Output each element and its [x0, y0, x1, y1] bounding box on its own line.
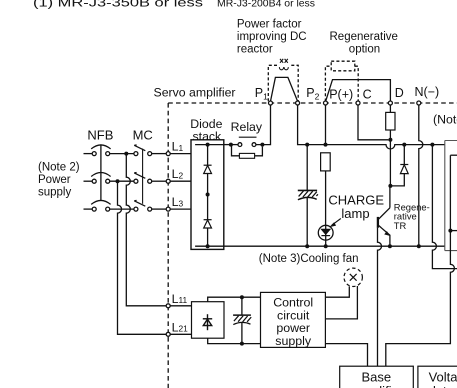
- svg-text:Servo amplifier: Servo amplifier: [154, 85, 236, 99]
- diode stack internal bus top: [195, 144, 224, 146]
- wire P bus to voltage detection drop: [432, 145, 457, 269]
- terminal C: [356, 101, 360, 105]
- junction N bus emitter: [388, 244, 392, 248]
- servo amplifier boundary dashed line left: [167, 103, 169, 388]
- breaker NFB link bar: [100, 144, 102, 200]
- inverter box partial: [445, 141, 457, 251]
- label Power factor improving DC reactor: [237, 18, 307, 55]
- regenerative option resistor dashed rect: [331, 61, 355, 71]
- label Control circuit power supply: [273, 296, 313, 348]
- junction relay left: [229, 143, 233, 147]
- wire branch L21 vertical with hop: [118, 181, 167, 334]
- wire MC to L2: [152, 180, 167, 182]
- svg-text:Relay: Relay: [231, 120, 263, 134]
- junction row1 branch: [124, 152, 128, 156]
- wire NFB to MC row1: [110, 153, 134, 155]
- wire control DC bus top: [208, 297, 261, 302]
- junction relay right: [260, 143, 264, 147]
- control capacitor top wire: [241, 297, 243, 315]
- regen resistor (D-C): [386, 112, 395, 130]
- svg-text:supply: supply: [275, 334, 312, 348]
- diode stack D2: [204, 220, 212, 228]
- wire P(+) drop: [325, 105, 327, 145]
- inrush resistor: [239, 153, 254, 158]
- svg-text:L1: L1: [172, 140, 184, 154]
- junction row2 branch: [116, 179, 120, 183]
- wire L21 terminal row: [170, 333, 191, 335]
- wire L3 to diode stack: [170, 208, 191, 210]
- svg-text:(1) MR-J3-350B or less: (1) MR-J3-350B or less: [33, 0, 203, 9]
- junction P bus P(+) tap: [324, 143, 328, 147]
- charge lamp resistor: [321, 153, 331, 171]
- breaker NFB pole3: [91, 200, 110, 211]
- svg-text:CHARGE: CHARGE: [328, 192, 384, 207]
- svg-text:Base: Base: [362, 370, 392, 385]
- wire C drop to regen node: [358, 105, 388, 140]
- main smoothing capacitor branch top wire: [306, 145, 308, 191]
- junction collector node: [388, 184, 392, 188]
- control circuit power supply box: [261, 292, 326, 347]
- wire inverter internal P stub: [450, 154, 457, 156]
- label (Note 2) Power supply: [38, 161, 80, 198]
- terminal L3: [166, 207, 170, 211]
- terminal L11: [166, 304, 170, 308]
- svg-text:detection: detection: [429, 384, 457, 388]
- svg-text:TR: TR: [394, 220, 407, 231]
- svg-text:MR-J3-200B4 or less: MR-J3-200B4 or less: [217, 0, 315, 9]
- svg-text:N(−): N(−): [415, 85, 440, 99]
- wire P2 riser and P bus: [298, 105, 445, 149]
- svg-text:Power: Power: [38, 174, 71, 186]
- contactor MC link bar: [142, 149, 144, 204]
- DC reactor coil symbol: [279, 59, 288, 70]
- label Regenerative option: [330, 31, 398, 55]
- main smoothing capacitor bottom wire: [306, 198, 308, 247]
- terminal P2: [296, 101, 300, 105]
- cooling fan motor: [344, 268, 362, 286]
- terminal D: [388, 101, 392, 105]
- svg-text:(Note 2): (Note 2): [38, 161, 80, 173]
- diode stack internal bus bottom: [195, 245, 224, 247]
- regenerative option dashed box: [325, 66, 358, 101]
- control capacitor bottom wire: [241, 322, 243, 343]
- svg-text:Regenerative: Regenerative: [330, 31, 398, 43]
- junction N bus N(-): [417, 244, 421, 248]
- converter diode stack box: [191, 140, 224, 250]
- terminal N(-): [417, 101, 421, 105]
- inrush resistor branch wire left: [232, 145, 240, 156]
- svg-text:L11: L11: [172, 292, 188, 306]
- junction diode stack mid: [206, 193, 210, 197]
- junction diode stack bottom: [206, 244, 210, 248]
- wire supply stub row2: [84, 180, 93, 182]
- wire D drop: [389, 105, 391, 112]
- arrow lamp pointer: [329, 219, 341, 228]
- junction regen node: [388, 138, 392, 142]
- control filter capacitor: [233, 315, 251, 325]
- regen freewheel diode branch: [390, 145, 404, 186]
- junction control cap top: [240, 295, 244, 299]
- junction control cap bottom: [240, 342, 244, 346]
- wire supply stub row3: [84, 208, 93, 210]
- diode stack D1: [204, 165, 212, 173]
- junction diode stack top: [206, 143, 210, 147]
- wire L2 to diode stack: [170, 180, 191, 182]
- servo amplifier boundary dashed line top: [168, 102, 457, 104]
- DC reactor dashed box: [268, 65, 298, 103]
- junction P bus detector tap: [430, 143, 434, 147]
- svg-text:L2: L2: [172, 167, 184, 181]
- wire relay to P1 riser: [256, 105, 271, 145]
- wire N(-) drop with hop: [419, 105, 423, 246]
- svg-text:D: D: [395, 86, 404, 100]
- junction N bus lamp: [324, 244, 328, 248]
- wire stack to relay: [224, 144, 238, 146]
- svg-text:amplifier: amplifier: [354, 384, 404, 388]
- wire jumper P(+)-D: [326, 80, 391, 102]
- svg-text:Power factor: Power factor: [237, 18, 302, 30]
- svg-text:C: C: [363, 87, 372, 101]
- wire resistor to lamp: [325, 171, 327, 225]
- wire fan lead right: [325, 286, 357, 319]
- terminal L21: [166, 332, 170, 336]
- contactor MC pole2: [134, 173, 152, 184]
- wire NFB to MC row2: [110, 180, 134, 182]
- svg-text:P(+): P(+): [329, 87, 353, 101]
- junction P bus diode tap: [402, 143, 406, 147]
- wire fan lead left: [325, 286, 349, 297]
- contactor MC pole1: [134, 145, 152, 156]
- breaker NFB pole1: [91, 145, 110, 156]
- contactor MC pole3: [134, 200, 152, 211]
- base amplifier box: [340, 366, 414, 388]
- wire MC to L3: [152, 208, 167, 210]
- svg-text:lamp: lamp: [341, 206, 369, 221]
- svg-text:improving DC: improving DC: [237, 31, 307, 43]
- breaker NFB pole2: [91, 173, 110, 184]
- svg-text:NFB: NFB: [87, 128, 113, 143]
- wire branch L11 vertical with hops: [126, 154, 166, 306]
- regen diode symbol: [400, 165, 408, 174]
- wire L1 to diode stack: [170, 153, 191, 155]
- svg-text:MC: MC: [133, 128, 153, 143]
- svg-text:L21: L21: [172, 320, 189, 334]
- svg-text:(Note 3)Cooling fan: (Note 3)Cooling fan: [259, 253, 359, 265]
- svg-text:option: option: [349, 43, 380, 55]
- wire inverter drop to base amplifier: [386, 155, 455, 366]
- wire MC to L1: [152, 153, 167, 155]
- wire control DC bus bottom: [208, 338, 261, 343]
- regenerative TR: [378, 186, 390, 246]
- voltage detection box: [418, 366, 457, 388]
- junction N bus cap: [305, 244, 309, 248]
- wire NFB to MC row3: [110, 208, 134, 210]
- svg-text:Voltage: Voltage: [429, 370, 457, 385]
- control rectifier diode: [203, 314, 212, 330]
- label Regenerative TR: [394, 202, 430, 231]
- svg-text:reactor: reactor: [237, 43, 273, 55]
- junction inverter internal: [448, 229, 452, 233]
- svg-text:L3: L3: [172, 195, 184, 209]
- wire control to base amplifier: [325, 344, 367, 367]
- svg-text:P1: P1: [255, 86, 268, 102]
- terminal L1: [166, 152, 170, 156]
- wire TR base lead: [378, 228, 382, 367]
- heading clipped title: [33, 0, 315, 9]
- control rectifier box: [192, 302, 225, 339]
- svg-text:P2: P2: [306, 86, 319, 102]
- wire inverter internal branch: [450, 230, 457, 232]
- diode stack center rail: [207, 145, 209, 247]
- wire supply stub row1: [84, 153, 93, 155]
- junction P bus capacitor tap: [305, 143, 309, 147]
- main smoothing capacitor: [298, 190, 318, 199]
- svg-text:supply: supply: [38, 187, 71, 199]
- wire regen resistor to TR collector: [389, 130, 391, 186]
- wire lamp to N bus: [325, 240, 327, 246]
- N bus: [224, 245, 445, 247]
- inrush resistor branch wire right: [255, 147, 263, 156]
- svg-text:(Note 4): (Note 4): [433, 112, 457, 126]
- charge lamp: [318, 225, 333, 240]
- terminal P(+): [324, 101, 328, 105]
- wire jumper P1-P2 trapezoid: [271, 77, 298, 101]
- relay contact: [238, 137, 257, 146]
- terminal L2: [166, 179, 170, 183]
- terminal P1: [269, 101, 273, 105]
- wire L11 terminal row: [170, 305, 191, 307]
